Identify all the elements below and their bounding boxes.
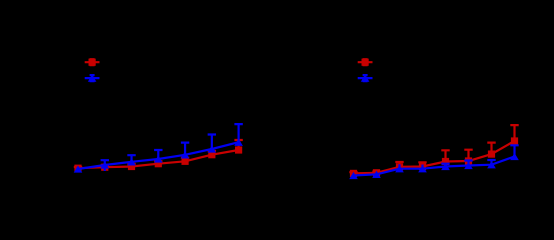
left-blue error bars [78, 124, 243, 171]
right-blue markers [349, 172, 358, 179]
wire left-blue line [78, 142, 239, 169]
legend right-red [358, 59, 373, 65]
wire right-red line [354, 141, 515, 173]
wire right-blue line [354, 157, 515, 176]
right-blue error bars [354, 145, 519, 175]
legend right-blue [358, 75, 373, 81]
left-blue markers [74, 165, 83, 172]
right-red error bars [349, 125, 518, 173]
right-red markers [350, 170, 357, 177]
legend left-red [85, 59, 100, 65]
left-red error bars [74, 140, 243, 168]
wire left-red line [78, 150, 239, 168]
left-red markers [74, 165, 81, 172]
legend left-blue [85, 75, 100, 81]
